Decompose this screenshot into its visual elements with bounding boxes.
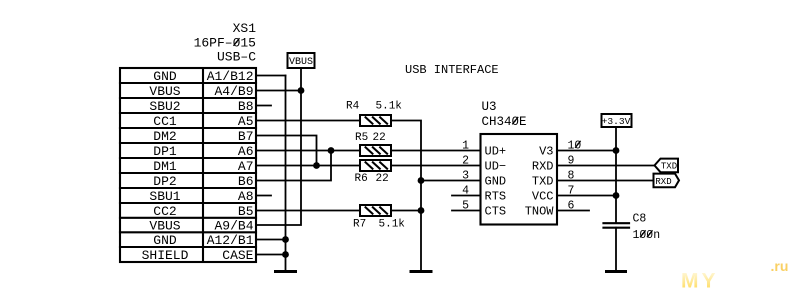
port flag TXD (655, 159, 679, 173)
wire U3 GND pin 3 to GND bus (421, 180, 481, 182)
svg-text:USB–C: USB–C (217, 50, 256, 65)
svg-text:MY: MY (681, 270, 719, 293)
U3 pin name CTS (485, 205, 507, 219)
wire DM1 to R6 (256, 165, 360, 167)
svg-text:RTS: RTS (485, 190, 507, 204)
svg-text:CTS: CTS (485, 205, 507, 219)
net label VBUS text (289, 57, 313, 68)
U3 pin 10 number (568, 140, 582, 153)
svg-text:R5: R5 (355, 132, 368, 144)
svg-text:TXD: TXD (661, 162, 677, 172)
svg-text:B7: B7 (238, 129, 254, 144)
svg-text:CC2: CC2 (153, 204, 176, 219)
resistor R5 value label (355, 132, 386, 144)
svg-text:100n: 100n (633, 229, 661, 242)
svg-text:22: 22 (376, 173, 389, 185)
svg-text:DP1: DP1 (153, 144, 177, 159)
U3 pin name UD+ (485, 145, 507, 159)
junction dot DP2/DP1 tie (328, 147, 335, 154)
svg-text:B5: B5 (238, 204, 254, 219)
svg-text:22: 22 (373, 132, 386, 144)
svg-text:B8: B8 (238, 99, 254, 114)
wire DM2 tie to DM1 (256, 136, 317, 166)
U3 pin name RXD (532, 160, 554, 174)
svg-text:VCC: VCC (532, 190, 554, 204)
wire SBU1 stub (256, 195, 271, 197)
svg-text:VBUS: VBUS (289, 57, 313, 68)
net label VBUS box (288, 53, 315, 68)
svg-text:CC1: CC1 (153, 114, 177, 129)
svg-text:RXD: RXD (532, 160, 554, 174)
U3 pin 7 number (568, 185, 575, 198)
svg-text:VBUS: VBUS (149, 219, 180, 234)
wire DP1 to R5 (256, 150, 360, 152)
svg-text:DM2: DM2 (153, 129, 176, 144)
svg-text:A12/B1: A12/B1 (207, 233, 254, 248)
wire R6 output to U3 pin 2 (391, 165, 481, 167)
connector XS1 reference labels XS1 / 16PF-015 / USB-C (194, 21, 257, 65)
wire CTS pin 5 stub (452, 210, 481, 212)
U3 pin 3 number (462, 170, 469, 183)
svg-text:2: 2 (462, 155, 469, 168)
wire +3.3V bus vertical (615, 127, 617, 222)
title text USB INTERFACE (405, 63, 499, 77)
pin GND A1/B12 (153, 69, 253, 84)
port flag RXD text (655, 177, 671, 187)
wire VBUS row stub (256, 90, 301, 92)
svg-text:SBU2: SBU2 (149, 99, 180, 114)
svg-text:XS1: XS1 (233, 21, 257, 36)
pin VBUS A9/B4 (149, 219, 253, 234)
junction dot GND bus / U3 GND line (418, 177, 425, 184)
svg-text:5: 5 (462, 200, 469, 213)
svg-text:SBU1: SBU1 (149, 189, 180, 204)
junction dot VBUS bus / VBUS row (298, 87, 305, 94)
svg-text:1: 1 (462, 140, 469, 153)
svg-text:GND: GND (485, 175, 507, 189)
resistor R4 value label (346, 101, 402, 113)
IC U3 reference label (482, 100, 527, 129)
pin DP2 B6 (153, 174, 253, 189)
svg-text:A4/B9: A4/B9 (214, 84, 253, 99)
U3 pin 2 number (462, 155, 469, 168)
U3 pin name GND (485, 175, 507, 189)
capacitor C8 label (633, 213, 661, 243)
svg-text:16PF–015: 16PF–015 (194, 36, 256, 51)
ground symbol under C8 (607, 270, 626, 273)
resistor R4 (360, 115, 391, 126)
svg-text:SHIELD: SHIELD (142, 248, 189, 263)
wire DP2 tie to DP1 (256, 151, 331, 181)
junction dot GND bus / R7 output (418, 207, 425, 214)
U3 pin name TNOW (525, 205, 555, 219)
svg-text:A5: A5 (238, 114, 254, 129)
pin CC1 A5 (153, 114, 253, 129)
svg-text:A6: A6 (238, 144, 254, 159)
connector XS1 pin table frame (120, 68, 256, 262)
U3 pin 4 number (462, 185, 469, 198)
svg-text:RXD: RXD (655, 177, 671, 187)
svg-text:+3.3V: +3.3V (602, 116, 631, 127)
svg-text:R4: R4 (346, 101, 360, 113)
pin DP1 A6 (153, 144, 253, 159)
wire RTS pin 4 stub (452, 195, 481, 197)
op-amp/IC U3 CH340E box (481, 134, 558, 225)
svg-text:GND: GND (153, 69, 177, 84)
resistor R7 value label (353, 219, 405, 231)
pin SHIELD CASE (142, 248, 254, 263)
port flag TXD text (661, 162, 677, 172)
pin DM2 B7 (153, 129, 253, 144)
capacitor C8 plates (604, 223, 630, 228)
wire R5 output to U3 pin 1 (391, 150, 481, 152)
resistor R5 (360, 145, 391, 156)
ground symbol under table GND bus (276, 270, 296, 273)
svg-text:.ru: .ru (771, 258, 789, 274)
wire R7 output to GND bus (391, 210, 421, 212)
wire U3 V3 pin 10 to +3.3V bus (557, 150, 616, 152)
U3 pin name VCC (532, 190, 554, 204)
pin VBUS A4/B9 (149, 84, 253, 99)
svg-text:A1/B12: A1/B12 (207, 69, 254, 84)
svg-text:VBUS: VBUS (149, 84, 180, 99)
wire SBU2 stub (256, 105, 271, 107)
wire CC2 to R7 (256, 210, 360, 212)
U3 pin name UD- (485, 160, 507, 174)
wire CC1 to R4 (256, 120, 360, 122)
U3 pin 9 number (568, 155, 575, 168)
junction dot +3.3V bus / V3 line (613, 147, 620, 154)
wire VBUS bus vertical (256, 68, 301, 225)
svg-text:R6: R6 (355, 173, 368, 185)
wire R4 output to GND bus (391, 121, 421, 271)
svg-text:5.1k: 5.1k (379, 219, 406, 231)
svg-text:UD+: UD+ (485, 145, 507, 159)
svg-text:A7: A7 (238, 159, 254, 174)
junction dot DM2/DM1 tie (313, 162, 320, 169)
resistor R7 (360, 205, 391, 216)
U3 pin name TXD (532, 175, 554, 189)
U3 pin 1 number (462, 140, 469, 153)
U3 pin 8 number (568, 170, 575, 183)
svg-text:A9/B4: A9/B4 (214, 219, 253, 234)
U3 pin 5 number (462, 200, 469, 213)
wire U3 TNOW pin 6 stub (557, 210, 589, 212)
svg-text:GND: GND (153, 233, 177, 248)
power symbol +3.3V box (602, 114, 632, 127)
svg-text:R7: R7 (353, 219, 366, 231)
wire U3 VCC pin 7 to +3.3V bus (557, 195, 616, 197)
pin GND A12/B1 (153, 233, 253, 248)
svg-text:V3: V3 (539, 145, 553, 159)
pin CC2 B5 (153, 204, 253, 219)
resistor R6 value label (355, 173, 389, 185)
svg-text:CH340E: CH340E (482, 115, 527, 129)
svg-text:5.1k: 5.1k (376, 101, 403, 113)
svg-text:DP2: DP2 (153, 174, 176, 189)
wire GND row stub (256, 75, 286, 77)
svg-text:UD−: UD− (485, 160, 507, 174)
pin SBU1 A8 (149, 189, 253, 204)
pin SBU2 B8 (149, 99, 253, 114)
svg-text:4: 4 (462, 185, 469, 198)
power symbol +3.3V text (602, 116, 631, 127)
svg-text:U3: U3 (482, 100, 497, 114)
wire SHIELD row stub (256, 254, 286, 256)
junction dot +3.3V bus / VCC line (613, 192, 620, 199)
wire GND row A12/B1 stub (256, 239, 286, 241)
svg-text:DM1: DM1 (153, 159, 177, 174)
U3 pin name V3 (539, 145, 553, 159)
wire U3 TXD pin 8 to RXD flag (557, 180, 654, 182)
svg-text:B6: B6 (238, 174, 254, 189)
slashed zero marks on 16PF-015 / CH340E / pin 10 / 100n (234, 39, 652, 237)
junction dot GND bus / SHIELD row (282, 251, 289, 258)
ground symbol under R4 bus (411, 270, 431, 273)
resistor R6 (360, 160, 391, 171)
U3 pin 6 number (568, 200, 575, 213)
pin DM1 A7 (153, 159, 253, 174)
wire GND bus vertical (285, 76, 287, 271)
U3 pin name RTS (485, 190, 507, 204)
svg-text:3: 3 (462, 170, 469, 183)
svg-text:TXD: TXD (532, 175, 554, 189)
svg-text:C8: C8 (633, 213, 647, 226)
svg-text:USB INTERFACE: USB INTERFACE (405, 63, 499, 77)
port flag RXD (654, 174, 680, 188)
junction dot GND bus / GND row (282, 236, 289, 243)
wire U3 RXD pin 9 to TXD flag (557, 165, 655, 167)
wire C8 bottom to ground (615, 228, 617, 271)
svg-text:CASE: CASE (222, 248, 253, 263)
svg-text:A8: A8 (238, 189, 254, 204)
svg-text:TNOW: TNOW (525, 205, 555, 219)
